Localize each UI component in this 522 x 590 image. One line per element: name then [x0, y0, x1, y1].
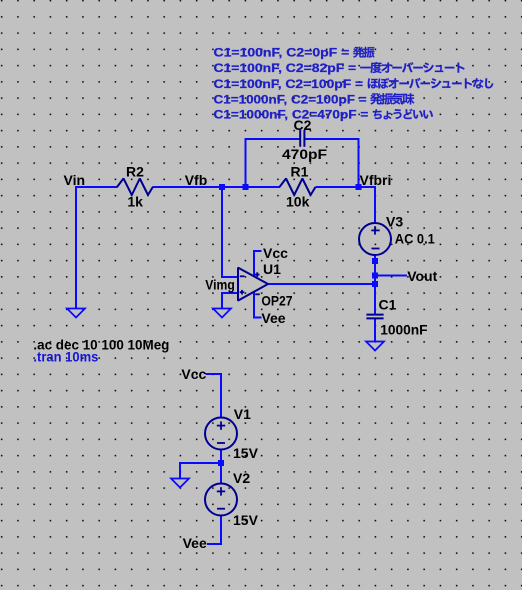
wire R1 to Vfbri corner	[316, 186, 376, 188]
svg-text:C1=100nF, C2=82pF =: C1=100nF, C2=82pF =	[214, 61, 357, 75]
svg-text:15V: 15V	[233, 445, 259, 461]
svg-text:Vin: Vin	[64, 172, 86, 188]
comment text line 1 japanese part	[353, 47, 374, 58]
svg-text:Vee: Vee	[183, 535, 207, 551]
wire to op-amp non-inverting input horizontal	[221, 292, 238, 294]
wire to op-amp inverting input horizontal	[221, 276, 238, 278]
svg-text:R1: R1	[291, 163, 309, 179]
wire Vfb down to op-amp inverting input	[221, 188, 223, 277]
ground below op-amp non-inverting input	[213, 309, 231, 318]
capacitor C1	[366, 315, 383, 319]
node junction between V1 and V2	[218, 460, 224, 466]
svg-text:Vfb: Vfb	[185, 172, 208, 188]
wire V1 bottom to V2 top	[220, 449, 222, 485]
resistor R1	[280, 179, 316, 196]
node Vfbri junction (C2 loop right)	[356, 184, 362, 190]
wire non-inverting input down to ground	[221, 292, 223, 309]
comment text line 4 japanese part	[370, 93, 414, 105]
svg-text:U1: U1	[263, 261, 281, 277]
node junction op-amp output tap	[372, 281, 378, 287]
ground below C1	[366, 342, 384, 351]
svg-text:Vcc: Vcc	[263, 245, 288, 261]
wire V2 bottom down	[220, 515, 222, 545]
svg-text:C1=100nF, C2=100pF =: C1=100nF, C2=100pF =	[214, 77, 364, 91]
wire Vee supply stub	[253, 317, 262, 319]
voltage source V1	[205, 418, 237, 450]
svg-text:Vcc: Vcc	[181, 366, 206, 382]
wire C2 loop top-right horizontal	[304, 138, 359, 140]
node junction V3 minus terminal	[372, 258, 378, 264]
op-amp U1 inverting input mark	[240, 275, 245, 277]
svg-text:10k: 10k	[286, 193, 310, 209]
wire C2 loop left vertical	[245, 139, 247, 188]
svg-text:C1=100nF, C2=0pF =: C1=100nF, C2=0pF =	[214, 46, 350, 60]
svg-text:15V: 15V	[233, 512, 259, 528]
resistor R2	[117, 179, 153, 196]
voltage source V2	[205, 484, 237, 516]
svg-text:Vimg: Vimg	[205, 277, 235, 293]
svg-text:Vout: Vout	[407, 268, 437, 284]
node Vout junction	[372, 273, 378, 279]
svg-text:.tran 10ms: .tran 10ms	[33, 350, 98, 365]
wire V3 bottom to C1 top	[374, 255, 376, 315]
node Vfb junction (inverting input tap)	[219, 184, 225, 190]
comment text line 2 japanese part	[360, 62, 464, 73]
wire to Vee label	[207, 543, 222, 545]
op-amp U1 positive supply mark	[255, 272, 260, 277]
svg-text:Vfbri: Vfbri	[360, 172, 392, 188]
wire C2 loop top-left horizontal	[245, 138, 301, 140]
op-amp U1 negative supply mark	[255, 293, 260, 295]
ground at V1-V2 midpoint	[171, 479, 189, 488]
op-amp U1 non-inverting input mark	[240, 290, 245, 295]
wire C2 loop right vertical	[358, 139, 360, 188]
op-amp U1 triangle	[238, 268, 268, 301]
svg-text:AC 0.1: AC 0.1	[395, 231, 435, 247]
wire C1 bottom to ground	[374, 318, 376, 342]
node junction C2 loop left	[243, 184, 249, 190]
svg-text:1k: 1k	[127, 193, 143, 209]
voltage source V3	[359, 223, 391, 255]
svg-text:C1: C1	[379, 297, 397, 313]
svg-text:V2: V2	[233, 470, 250, 486]
comment text line 5 japanese part	[373, 109, 433, 120]
wire V1-V2 midpoint to ground horizontal	[180, 462, 221, 464]
capacitor C2	[300, 130, 304, 147]
svg-text:C1=1000nF, C2=100pF =: C1=1000nF, C2=100pF =	[214, 93, 367, 107]
wire Vcc rail down to V1 top	[220, 373, 222, 419]
svg-text:OP27: OP27	[261, 293, 292, 309]
svg-text:V1: V1	[234, 406, 251, 422]
ground below Vin	[67, 309, 85, 318]
svg-text:1000nF: 1000nF	[380, 322, 428, 338]
wire down to supply ground	[179, 462, 181, 479]
comment text line 3 japanese part	[368, 78, 494, 89]
svg-text:470pF: 470pF	[282, 146, 327, 162]
wire Vcc supply pin vertical	[253, 251, 255, 276]
wire op-amp output to Vout node	[268, 283, 375, 285]
wire Vfbri corner down to V3 top	[374, 186, 376, 224]
svg-text:Vee: Vee	[261, 310, 285, 326]
wire Vcc supply stub	[253, 250, 262, 252]
wire R2 to Vfb to R1	[153, 186, 281, 188]
wire Vin down to ground	[75, 186, 77, 309]
wire Vcc rail horizontal	[206, 373, 223, 375]
wire Vout tap	[375, 275, 407, 277]
svg-text:R2: R2	[126, 163, 144, 179]
svg-text:V3: V3	[386, 213, 403, 229]
wire Vee supply pin vertical	[253, 292, 255, 318]
wire Vin to R2	[76, 186, 118, 188]
svg-text:C1=1000nF, C2=470pF =: C1=1000nF, C2=470pF =	[214, 108, 369, 122]
